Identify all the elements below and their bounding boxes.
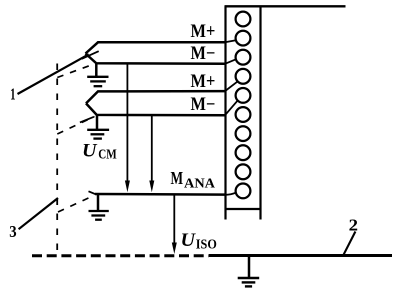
svg-text:M−: M− xyxy=(191,44,216,64)
svg-text:2: 2 xyxy=(349,215,358,234)
twist cross stroke pair 1 xyxy=(82,51,99,59)
ground G4 stem (bottom) xyxy=(248,257,251,278)
connector lead M_ANA to terminal 11 xyxy=(225,193,236,195)
svg-text:M−: M− xyxy=(191,95,216,115)
label 2 lead tick xyxy=(344,232,356,255)
arrow U_ISO xyxy=(173,196,175,244)
svg-text:M+: M+ xyxy=(191,22,216,42)
svg-text:ISO: ISO xyxy=(196,237,217,252)
label 1 lead line xyxy=(18,54,89,94)
connector lead wire3 to terminal 5 xyxy=(225,81,238,91)
bottom solid line net 2 xyxy=(209,254,392,257)
ground G1 xyxy=(87,77,108,86)
ground G2 stem xyxy=(96,115,99,130)
wire M- pair 1 xyxy=(86,54,227,64)
ground G1 stem xyxy=(95,63,98,76)
arrow U_CM from M-2 xyxy=(151,115,153,181)
connector lead wire2 to terminal 3 xyxy=(225,59,236,64)
svg-text:U: U xyxy=(181,230,197,251)
svg-text:3: 3 xyxy=(9,222,16,241)
label 3 lead line xyxy=(19,198,58,229)
ground G2 xyxy=(87,130,109,139)
arrow U_CM from M-1 xyxy=(126,63,128,181)
svg-text:1: 1 xyxy=(10,84,15,103)
terminal block left edge xyxy=(224,6,226,219)
twist cross stroke pair 2 xyxy=(80,117,94,123)
connector lead wire1 to terminal 2 xyxy=(225,40,237,42)
terminal block right edge xyxy=(259,6,261,219)
dashed vertical shield bus xyxy=(56,64,58,251)
terminals (11 circles) xyxy=(236,12,251,199)
shield dashed lead 3 xyxy=(58,195,95,212)
wire M+ pair 2 xyxy=(86,91,226,103)
connector lead wire4 to terminal 6 xyxy=(225,101,237,115)
svg-text:ANA: ANA xyxy=(184,177,216,192)
shield dashed lead pair 1 xyxy=(57,64,94,78)
wire M_ANA xyxy=(95,193,226,196)
svg-text:M+: M+ xyxy=(191,72,216,92)
wire M+ pair 1 xyxy=(86,42,227,53)
ground G3 stem xyxy=(97,194,100,210)
terminal block bottom edge xyxy=(225,208,262,210)
bottom dashed chassis line xyxy=(32,254,209,257)
top bus line xyxy=(225,5,346,7)
svg-text:U: U xyxy=(82,141,98,162)
svg-text:CM: CM xyxy=(98,148,117,163)
wire M- pair 2 xyxy=(86,103,226,115)
svg-text:M: M xyxy=(171,168,184,188)
ground G3 xyxy=(89,211,109,220)
M_ANA left end tick xyxy=(89,191,96,194)
ground G4 xyxy=(238,278,260,286)
shield dashed lead pair 2 xyxy=(57,117,94,135)
